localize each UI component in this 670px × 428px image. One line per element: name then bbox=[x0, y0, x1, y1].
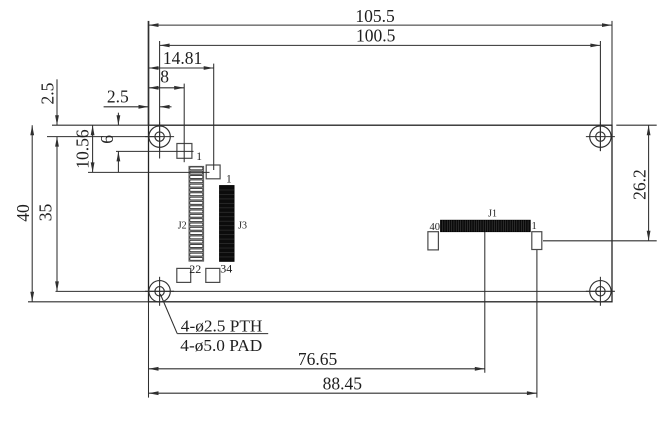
dim 6 lower segment bbox=[117, 151, 119, 172]
svg-text:100.5: 100.5 bbox=[356, 26, 396, 46]
svg-text:14.81: 14.81 bbox=[163, 48, 202, 68]
connector J1 body bbox=[441, 220, 531, 232]
svg-text:4-ø5.0 PAD: 4-ø5.0 PAD bbox=[180, 336, 262, 355]
dim 8 extension line right bbox=[183, 84, 185, 163]
svg-text:2.5: 2.5 bbox=[107, 87, 129, 107]
dim 76.65 line bbox=[149, 368, 485, 370]
dim 2.5 horizontal left segment bbox=[104, 106, 149, 108]
J1 pin1 pad extension line bbox=[536, 250, 538, 398]
svg-text:6: 6 bbox=[97, 135, 117, 144]
dim 2.5 vertical line bbox=[56, 79, 58, 125]
mounting hole top-right (2.5 PTH / 5.0 PAD) bbox=[586, 122, 615, 151]
J1 pin1 pad bbox=[532, 232, 542, 250]
dim 10.56 bottom extension bbox=[88, 171, 210, 173]
mounting hole top-left (2.5 PTH / 5.0 PAD) bbox=[145, 122, 174, 158]
dim 26.2 bottom extension bbox=[543, 240, 657, 242]
dim 14.81 line bbox=[149, 67, 214, 69]
dim 2.5 horizontal right segment bbox=[160, 106, 172, 108]
dim 100.5 line bbox=[160, 44, 601, 46]
connector J3 body bbox=[220, 186, 235, 262]
hole note leader line bbox=[160, 294, 177, 334]
svg-text:22: 22 bbox=[189, 262, 201, 276]
svg-text:40: 40 bbox=[13, 204, 33, 222]
dim 105.5 extension line left bbox=[148, 21, 150, 125]
dim 105.5 line bbox=[149, 24, 613, 26]
dim 88.45 line bbox=[149, 392, 537, 394]
dim 26.2 line bbox=[648, 125, 650, 241]
svg-text:J3: J3 bbox=[238, 221, 247, 232]
svg-text:1: 1 bbox=[532, 221, 537, 232]
component center line horizontal bbox=[116, 150, 194, 152]
dim 100.5 extension line right bbox=[599, 41, 601, 151]
dim 14.81 extension line right bbox=[213, 64, 215, 170]
bottom-left corner extension line bbox=[148, 302, 150, 398]
svg-text:2.5: 2.5 bbox=[38, 82, 58, 104]
top hole center line bbox=[47, 136, 160, 138]
svg-text:76.65: 76.65 bbox=[298, 349, 338, 369]
svg-text:105.5: 105.5 bbox=[355, 6, 395, 26]
svg-text:88.45: 88.45 bbox=[323, 373, 363, 393]
svg-text:26.2: 26.2 bbox=[630, 169, 650, 200]
PCB board outline bbox=[149, 125, 613, 302]
dim 105.5 extension line right bbox=[611, 21, 613, 125]
mounting hole bottom-left (2.5 PTH / 5.0 PAD) bbox=[145, 277, 174, 306]
svg-text:8: 8 bbox=[160, 67, 169, 87]
dim 35 line bbox=[56, 137, 58, 292]
svg-text:34: 34 bbox=[220, 262, 232, 276]
svg-text:J2: J2 bbox=[178, 221, 187, 232]
J3 pin34 pad bbox=[206, 268, 220, 282]
svg-text:J1: J1 bbox=[488, 209, 497, 220]
dim 10.56 line bbox=[92, 125, 94, 172]
hole note underline bbox=[177, 333, 268, 335]
board top edge extension to left bbox=[52, 124, 149, 126]
dim 8 line bbox=[149, 87, 185, 89]
J1 pin40 pad bbox=[428, 232, 439, 250]
svg-text:10.56: 10.56 bbox=[73, 129, 93, 169]
svg-text:4-ø2.5 PTH: 4-ø2.5 PTH bbox=[181, 316, 263, 335]
dim 40 line bbox=[31, 125, 33, 302]
J2 pin22 pad bbox=[177, 268, 191, 282]
dim 40 bottom extension bbox=[28, 301, 149, 303]
svg-text:1: 1 bbox=[196, 151, 202, 163]
dim 26.2 top extension bbox=[616, 124, 656, 126]
dim 100.5 extension line left bbox=[159, 41, 161, 151]
J2 pin1 marker square bbox=[177, 144, 192, 159]
connector J2 body bbox=[189, 166, 204, 261]
mounting hole bottom-right (2.5 PTH / 5.0 PAD) bbox=[586, 277, 615, 306]
bottom hole center line bbox=[56, 290, 601, 292]
J1 center extension line bbox=[484, 232, 486, 373]
svg-text:1: 1 bbox=[226, 174, 232, 186]
svg-text:35: 35 bbox=[36, 204, 56, 222]
J3 pin1 pad bbox=[206, 165, 220, 179]
dim 6 upper segment bbox=[117, 113, 119, 126]
